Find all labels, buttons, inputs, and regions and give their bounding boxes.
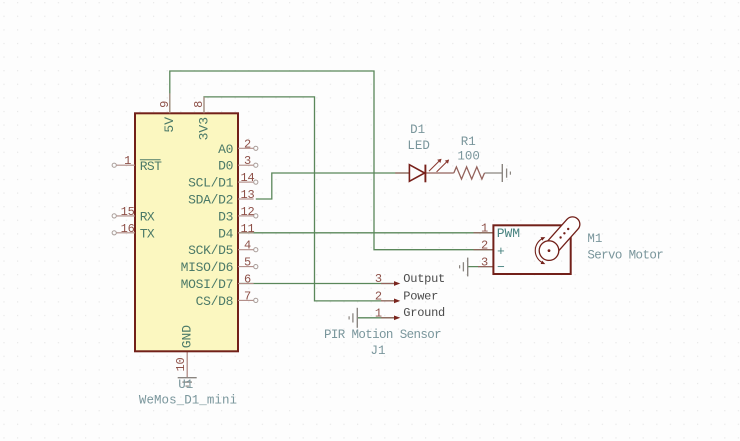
U1 pin 9 5V [158, 93, 177, 132]
U1 reference designator [178, 378, 193, 392]
wire servo pin 3 (-) to GND symbol [468, 266, 494, 268]
svg-text:U1: U1 [178, 378, 193, 392]
U1 pin 13 SDA/D2 [188, 188, 254, 208]
PIR J1 pin 3 Output [375, 272, 445, 286]
U1 pin 1 RST [112, 154, 162, 174]
ground symbol left of servo pin 3 [460, 258, 468, 277]
D1 value LED [407, 139, 430, 153]
U1 pin 4 SCK/D5 [188, 239, 258, 259]
servo motor M1 body [493, 225, 570, 274]
svg-text:6: 6 [244, 273, 251, 287]
ground symbol right of R1 [502, 164, 510, 182]
U1 pin 2 A0 [218, 137, 258, 157]
svg-text:2: 2 [481, 239, 488, 253]
svg-text:100: 100 [457, 150, 480, 164]
wire D4 net: U1 pin 11 to servo M1 pin 1 PWM [238, 232, 493, 234]
svg-text:−: − [497, 260, 505, 275]
servo M1 pin stubs [474, 233, 494, 267]
wire SDA/D2 net: U1 pin 13 to LED D1 anode [256, 173, 410, 199]
wire 5V net: U1 pin 9 to servo M1 pin 2 (+) [170, 71, 494, 250]
U1 value WeMos_D1_mini [139, 393, 237, 407]
svg-text:3V3: 3V3 [197, 117, 212, 140]
svg-text:D1: D1 [410, 123, 425, 137]
servo M1 horn hub circle [539, 241, 559, 261]
svg-text:TX: TX [140, 226, 155, 241]
svg-text:4: 4 [244, 239, 251, 253]
svg-text:9: 9 [158, 101, 172, 108]
svg-text:RX: RX [140, 210, 155, 225]
U1 pin 3 D0 [218, 154, 258, 174]
svg-text:3: 3 [375, 272, 382, 286]
servo M1 pin 1 PWM [481, 222, 520, 242]
svg-text:15: 15 [121, 205, 135, 219]
U1 pin 6 MOSI/D7 [181, 273, 254, 293]
servo M1 pin 2 + [481, 239, 505, 260]
U1 pin 11 D4 [218, 222, 254, 242]
U1 pin 12 D3 [218, 205, 258, 225]
svg-text:PIR Motion Sensor: PIR Motion Sensor [324, 328, 441, 342]
svg-text:SCL/D1: SCL/D1 [188, 176, 234, 191]
J1 value PIR Motion Sensor [324, 328, 441, 342]
LED D1 anode pin stub [395, 172, 409, 174]
svg-text:16: 16 [121, 222, 135, 236]
svg-text:12: 12 [240, 205, 254, 219]
svg-text:CS/D8: CS/D8 [196, 294, 234, 309]
svg-text:10: 10 [174, 357, 188, 371]
svg-text:3: 3 [481, 255, 488, 269]
svg-text:8: 8 [192, 101, 206, 108]
U1 pin 5 MISO/D6 [181, 256, 258, 276]
U1 pin 10 GND [174, 325, 195, 372]
servo M1 horn screw dots [559, 228, 569, 239]
svg-text:PWM: PWM [497, 226, 520, 241]
svg-text:5: 5 [244, 256, 251, 270]
svg-text:J1: J1 [370, 344, 385, 358]
svg-text:Ground: Ground [403, 306, 445, 320]
svg-text:WeMos_D1_mini: WeMos_D1_mini [139, 393, 237, 407]
svg-text:D0: D0 [218, 159, 233, 174]
R1 value 100 [457, 150, 480, 164]
svg-text:Power: Power [403, 289, 438, 303]
svg-text:GND: GND [180, 325, 195, 349]
PIR J1 pin stubs [381, 284, 394, 318]
PIR J1 pin 1 Ground [375, 306, 445, 320]
servo M1 horn arm [542, 217, 580, 258]
svg-text:7: 7 [244, 289, 251, 303]
svg-text:Servo Motor: Servo Motor [587, 249, 663, 263]
IC U1 WeMos_D1_mini body [135, 113, 238, 351]
svg-text:RST: RST [140, 159, 162, 174]
PIR J1 pin 2 Power [375, 289, 438, 303]
M1 reference designator [587, 232, 602, 246]
svg-text:A0: A0 [218, 142, 233, 157]
svg-text:Output: Output [403, 272, 445, 286]
servo M1 rotation arrow arc [535, 237, 545, 264]
svg-text:1: 1 [481, 222, 488, 236]
svg-text:SDA/D2: SDA/D2 [188, 193, 233, 208]
ground symbol left of PIR pin 1 [349, 308, 357, 328]
svg-text:1: 1 [124, 154, 131, 168]
svg-text:11: 11 [240, 222, 254, 236]
svg-text:+: + [497, 244, 505, 259]
svg-text:LED: LED [407, 139, 430, 153]
resistor R1 zigzag [454, 167, 485, 179]
wire PIR ground pin to GND symbol [357, 317, 394, 319]
wire R1 to GND symbol [485, 172, 503, 174]
svg-text:M1: M1 [587, 232, 602, 246]
U1 pin 8 3V3 [192, 97, 212, 141]
svg-text:MISO/D6: MISO/D6 [181, 260, 234, 275]
wire MOSI/D7 net: U1 pin 6 to PIR J1 pin 3 Output [238, 283, 394, 285]
svg-text:D3: D3 [218, 209, 233, 224]
svg-text:2: 2 [375, 289, 382, 303]
LED D1 symbol [409, 159, 449, 183]
svg-text:2: 2 [244, 137, 251, 151]
U1 pin 15 RX [112, 205, 155, 225]
svg-text:13: 13 [240, 188, 254, 202]
ground symbol below U1 [178, 378, 197, 386]
U1 pin 14 SCL/D1 [188, 171, 258, 191]
wire LED cathode to R1 [425, 172, 453, 174]
R1 reference label [461, 135, 476, 149]
svg-text:14: 14 [240, 171, 254, 185]
J1 reference designator [370, 344, 385, 358]
svg-text:D4: D4 [218, 226, 234, 241]
svg-text:R1: R1 [461, 135, 476, 149]
D1 reference label [410, 123, 425, 137]
U1 pin 16 TX [112, 222, 155, 242]
wire U1 GND pin to ground symbol [186, 351, 188, 377]
svg-text:3: 3 [244, 154, 251, 168]
servo M1 pin 3 - [481, 255, 505, 275]
M1 value Servo Motor [587, 249, 663, 263]
U1 pin 7 CS/D8 [196, 289, 258, 309]
svg-text:5V: 5V [162, 117, 177, 133]
svg-text:1: 1 [375, 306, 382, 320]
wire 3V3 net: U1 pin 8 to PIR J1 pin 2 Power [204, 97, 394, 301]
svg-text:MOSI/D7: MOSI/D7 [181, 277, 234, 292]
svg-text:SCK/D5: SCK/D5 [188, 243, 233, 258]
